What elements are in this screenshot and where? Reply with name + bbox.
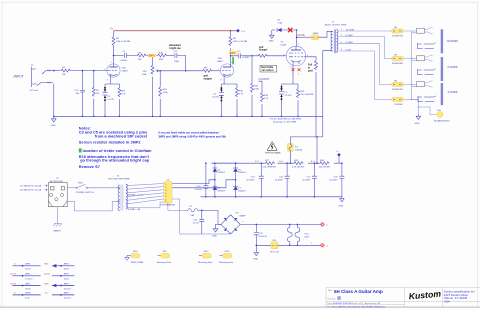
wire common tap [339, 51, 392, 99]
svg-text:C27: C27 [306, 176, 311, 178]
wire 4 ohm tap [339, 44, 392, 85]
svg-text:W10: W10 [133, 251, 138, 253]
wire V1A cathode network [105, 77, 120, 116]
svg-text:A second fixed treble cut circ: A second fixed treble cut circuit added … [158, 130, 219, 134]
capacitor C12 [254, 224, 259, 245]
svg-text:5: 5 [326, 225, 328, 227]
resistor R1 33k [61, 69, 71, 72]
svg-text:R14: R14 [254, 86, 259, 88]
svg-text:W13: W13 [225, 251, 230, 253]
svg-text:R27: R27 [265, 160, 270, 162]
svg-text:D6: D6 [238, 169, 242, 171]
svg-text:C11: C11 [174, 51, 179, 53]
svg-text:10mm: 10mm [25, 269, 31, 271]
resistor R46 [319, 162, 329, 165]
AC module P1 [48, 183, 67, 207]
svg-text:location of treble control in: location of treble control in Chieftain [83, 149, 153, 153]
ground heater [255, 245, 257, 250]
resistor R43 [293, 162, 303, 165]
svg-text:3: 3 [107, 79, 108, 81]
svg-text:V-: V- [14, 293, 16, 295]
capacitor C25 [285, 163, 290, 197]
svg-text:220 OHM NR: 220 OHM NR [300, 94, 314, 96]
svg-text:JMP2: JMP2 [25, 283, 31, 285]
diode D4 [213, 168, 218, 172]
resistor R6 56k [137, 54, 147, 57]
svg-text:4.7k 2W NR: 4.7k 2W NR [292, 166, 304, 168]
note second treble [158, 130, 226, 138]
ground symbol CH1 [52, 117, 57, 122]
svg-text:8 OHMS: 8 OHMS [448, 65, 458, 69]
svg-text:5.7k: 5.7k [264, 98, 269, 100]
page bottom edge line [0, 307, 480, 308]
jumper JMP3b wire [52, 294, 74, 296]
svg-text:V+1: V+1 [241, 31, 246, 33]
pentode V3 [286, 46, 306, 66]
svg-text:4OHM/ORG: 4OHM/ORG [392, 89, 403, 91]
svg-text:INCANDESCENT: INCANDESCENT [434, 120, 451, 123]
svg-text:1N4007: 1N4007 [238, 172, 246, 174]
svg-text:J1: J1 [31, 65, 34, 67]
svg-text:R46: R46 [320, 160, 325, 162]
svg-text:22-25V: 22-25V [212, 96, 220, 98]
svg-text:47-35: 47-35 [193, 223, 199, 225]
svg-text:J2: J2 [167, 179, 170, 181]
svg-text:stopper: stopper [204, 78, 213, 81]
svg-text:GND: GND [44, 283, 49, 285]
svg-text:+0.73V: +0.73V [107, 99, 115, 101]
1/4 jack out 2 [418, 69, 436, 80]
svg-text:4 OHMS: 4 OHMS [448, 90, 458, 94]
svg-text:P: P [426, 54, 428, 56]
node V+1 diamond [236, 29, 240, 33]
ground speaker bus [416, 114, 421, 119]
svg-text:+: + [242, 220, 244, 223]
capacitor C2 coupling [231, 53, 258, 58]
diode D6 [233, 168, 238, 172]
svg-text:V+: V+ [110, 27, 114, 30]
svg-text:22-450V: 22-450V [275, 179, 284, 181]
header J2 7 pin yellow [160, 179, 176, 206]
label fixed treble cut control (black) [260, 65, 277, 72]
svg-text:INPUT: INPUT [14, 75, 25, 79]
resistor R15 [159, 71, 161, 87]
wire jack tip to R1 [53, 70, 60, 72]
svg-text:22-450V: 22-450V [329, 179, 338, 181]
svg-text:pent: pent [308, 69, 313, 72]
svg-text:VR1: VR1 [143, 71, 148, 73]
resistor R10 [236, 87, 239, 97]
wire mid column2 [235, 171, 237, 186]
svg-text:4 OHM: 4 OHM [346, 42, 353, 44]
svg-text:220 OHM NR: 220 OHM NR [263, 166, 277, 168]
svg-text:P1: P1 [56, 178, 59, 180]
svg-text:V1C: V1C [305, 233, 310, 235]
resistor R5 plate [230, 31, 232, 36]
capacitor C5 socketed [279, 91, 284, 94]
pot wiper arrow [157, 70, 161, 72]
diode D5 [213, 186, 218, 190]
svg-text:100k LOW NR: 100k LOW NR [116, 41, 131, 43]
label JMP6 highlighted [148, 54, 157, 57]
svg-text:500k: 500k [142, 74, 148, 76]
svg-text:Mounting Hole: Mounting Hole [198, 261, 213, 264]
capacitor C11 bright cap [175, 53, 186, 58]
svg-text:17.5mm: 17.5mm [25, 279, 33, 281]
svg-text:JMP8: JMP8 [25, 293, 31, 295]
svg-text:5H Class A Guitar Amp: 5H Class A Guitar Amp [334, 289, 383, 294]
heater pin marks red [292, 68, 301, 71]
ground filter rail [340, 197, 345, 202]
svg-text:4700-25: 4700-25 [259, 236, 268, 238]
speaker bar 8 ohm [441, 57, 443, 81]
svg-text:8: 8 [290, 67, 291, 69]
resistor R20 screen [315, 60, 318, 70]
svg-text:5: 5 [292, 73, 294, 75]
svg-text:2.7k: 2.7k [122, 94, 127, 96]
pad W5 yellow [271, 242, 278, 249]
svg-text:RING TERM: RING TERM [131, 262, 143, 264]
svg-text:C10: C10 [75, 90, 80, 92]
svg-text:W6: W6 [163, 251, 167, 253]
svg-text:W12: W12 [204, 251, 209, 253]
svg-text:R2: R2 [96, 90, 100, 92]
capacitor C4 socketed [219, 93, 224, 96]
svg-text:F2: F2 [295, 146, 298, 148]
wire to pilot lamp [418, 107, 437, 115]
svg-text:240 VAC/50 Hz max.4A: 240 VAC/50 Hz max.4A [20, 189, 42, 192]
svg-text:V1A: V1A [122, 67, 127, 70]
svg-text:6: 6 [231, 62, 232, 64]
wire heater plus rail [240, 223, 320, 225]
transformer T1 [330, 29, 338, 53]
svg-text:GND: GND [51, 125, 56, 127]
svg-text:Revision:: Revision: [328, 298, 337, 300]
jumper row labels red [10, 264, 50, 295]
svg-text:File: DeluxeJMP Main Board Rev: File: DeluxeJMP Main Board Rev B 190mZR … [328, 306, 386, 309]
svg-text:Mounting Hole: Mounting Hole [157, 261, 172, 264]
wire mid column1 [214, 171, 216, 186]
cathode network V3 [282, 65, 299, 116]
wire V3 screen long run [290, 57, 323, 163]
svg-text:bright cap: bright cap [170, 47, 182, 50]
svg-text:C12: C12 [259, 233, 264, 235]
svg-text:R43: R43 [294, 160, 299, 162]
svg-text:JMP2: JMP2 [229, 52, 236, 55]
svg-text:F1: F1 [190, 206, 193, 208]
svg-text:JMP6: JMP6 [148, 55, 155, 58]
input jack J1 [32, 67, 53, 87]
svg-text:1M: 1M [96, 93, 99, 95]
wire rectifier top rail [211, 163, 238, 168]
capacitor C13 [199, 210, 204, 234]
svg-text:7 PIN HEADER: 7 PIN HEADER [160, 203, 176, 206]
svg-text:1: 1 [311, 243, 313, 245]
svg-text:Mounting Hole: Mounting Hole [219, 261, 234, 264]
capacitor C16 [203, 163, 208, 197]
svg-text:D7: D7 [238, 188, 242, 190]
pin numbers V3 [284, 44, 309, 69]
svg-text:56k: 56k [138, 59, 142, 61]
svg-text:POWER SWITCH: POWER SWITCH [76, 192, 94, 194]
svg-text:stopper: stopper [259, 49, 268, 52]
wire jack3 to connector [404, 85, 417, 87]
label JMP2 highlighted [229, 51, 238, 54]
svg-text:D8: D8 [236, 213, 240, 215]
svg-text:12.5mm: 12.5mm [64, 288, 72, 290]
plate wire to jumper [297, 36, 312, 38]
svg-text:SW1: SW1 [78, 182, 84, 184]
svg-text:-0.408V: -0.408V [242, 57, 250, 59]
node V+ feed [338, 156, 340, 163]
svg-text:R11: R11 [122, 91, 127, 93]
wires T2 secondary to header [126, 184, 187, 211]
pin numbers V1B [218, 62, 233, 82]
svg-text:C6 2200uF: C6 2200uF [259, 78, 270, 80]
wire jack sleeve down to ground bus [53, 84, 55, 117]
jumper JMP1 wire [13, 275, 41, 277]
svg-text:V+: V+ [336, 151, 339, 153]
resistor R27 [265, 162, 275, 165]
svg-text:Kustom: Kustom [408, 289, 441, 302]
svg-text:16OHM/YEL: 16OHM/YEL [392, 36, 404, 38]
C4 socket arrows (black) [220, 87, 223, 101]
svg-text:PLATE: PLATE [298, 34, 306, 37]
svg-text:180p: 180p [174, 61, 180, 63]
fuse F2 [287, 143, 302, 163]
extra resistor R18 [261, 81, 263, 92]
junction dots input [53, 70, 95, 117]
svg-text:W2: W2 [394, 55, 398, 57]
svg-text:1N4007: 1N4007 [238, 190, 246, 192]
warning triangle HIGH VOLTAGE [267, 142, 277, 151]
wire V1A plate up to R4 [113, 46, 115, 64]
svg-text:6AMP: 6AMP [240, 215, 246, 218]
svg-text:1: 1 [111, 62, 112, 64]
svg-text:SwG2: SwG2 [10, 283, 17, 285]
C5 socket arrows (black) [280, 86, 283, 100]
jumper JMP3 yellow [311, 35, 318, 40]
svg-text:8: 8 [220, 79, 221, 81]
svg-text:16 OHM: 16 OHM [346, 29, 354, 31]
svg-text:grid: grid [259, 47, 264, 49]
title block frame [326, 288, 480, 307]
earth ground [53, 207, 62, 227]
1/4 jack out 1 [418, 43, 436, 54]
wire diode to plate node [284, 30, 296, 46]
svg-text:JMP2 and JMP6 using 0.0047uf 4: JMP2 and JMP6 using 0.0047uf 400V greeni… [158, 135, 226, 139]
svg-text:12AX7: 12AX7 [217, 60, 224, 63]
svg-text:12AX7: 12AX7 [122, 70, 129, 73]
svg-text:SwG3: SwG3 [44, 274, 51, 276]
svg-text:GND: GND [253, 259, 258, 261]
svg-text:1N4007: 1N4007 [217, 172, 225, 174]
pad W13 [219, 251, 234, 264]
svg-text:C30: C30 [333, 176, 338, 178]
svg-text:5: 5 [284, 54, 285, 56]
jumper JMP5 wire [13, 265, 41, 267]
wire pot top [152, 56, 154, 65]
svg-text:V2-: V2- [45, 293, 49, 295]
capacitor C3 socketed [103, 92, 108, 98]
ground at diode [271, 30, 273, 33]
svg-text:C2: C2 [238, 51, 242, 53]
svg-text:JMP3: JMP3 [313, 33, 319, 35]
svg-text:C1: C1 [123, 51, 127, 53]
svg-text:S7: S7 [278, 20, 281, 22]
wire heater minus rail [256, 244, 320, 246]
speaker bar 4 ohm [441, 83, 443, 105]
svg-text:USA: USA [444, 300, 450, 304]
diode D7 [233, 186, 238, 190]
resistor R19 cathode [297, 88, 300, 98]
svg-text:4: 4 [326, 246, 328, 248]
svg-text:120 VAC/60 Hz max.8A: 120 VAC/60 Hz max.8A [20, 184, 42, 187]
svg-text:1/4" Jack: 1/4" Jack [420, 104, 428, 106]
svg-text:Approved by: JK: Approved by: JK [365, 302, 381, 305]
svg-text:10mm: 10mm [64, 269, 70, 271]
jumper JMP2 wire [13, 285, 41, 287]
svg-text:from a machined SIP socket: from a machined SIP socket [95, 135, 148, 139]
wire 16 ohm tap [339, 30, 392, 32]
svg-text:22-450V: 22-450V [246, 179, 255, 181]
svg-text:12.5mm: 12.5mm [64, 298, 72, 300]
capacitor C27 [312, 163, 317, 197]
svg-text:33k: 33k [62, 74, 66, 76]
wire AC feed 2 [172, 180, 236, 188]
svg-text:P: P [426, 26, 428, 28]
wire bus to ground [412, 99, 419, 114]
svg-text:2.7k: 2.7k [239, 94, 244, 96]
wire bridge left to ground [216, 224, 222, 227]
svg-text:JMP4: JMP4 [64, 264, 70, 266]
svg-text:JMP5: JMP5 [25, 264, 31, 266]
svg-text:100k: 100k [159, 59, 165, 61]
terminal heater minus red [321, 244, 325, 248]
wire jack1 to connector [404, 31, 417, 33]
jumper JMP8 wire [13, 294, 41, 296]
wire to junction JMP6 [147, 55, 158, 57]
svg-text:470k: 470k [254, 89, 260, 91]
resistor R2 1M [93, 71, 95, 117]
terminal heater plus red [321, 223, 325, 227]
svg-text:10k 2W NR: 10k 2W NR [319, 166, 331, 168]
svg-text:P: P [426, 80, 428, 82]
svg-text:grid: grid [204, 76, 209, 78]
svg-text:C5: C5 [285, 92, 289, 94]
svg-text:fixed treble: fixed treble [261, 66, 274, 69]
svg-text:AUDIO OUTPUT XFMR: AUDIO OUTPUT XFMR [325, 24, 347, 27]
switch SW1 [67, 184, 117, 188]
svg-text:Remove S7: Remove S7 [79, 165, 100, 169]
svg-text:1/4" Jack: 1/4" Jack [419, 77, 427, 79]
pad W6 [157, 251, 172, 264]
svg-text:5: 5 [298, 73, 300, 75]
jumper JMP2 green mark [232, 57, 234, 65]
ground bus wire [54, 115, 323, 117]
svg-text:JMP9: JMP9 [64, 283, 70, 285]
svg-text:C4: C4 [213, 93, 217, 95]
svg-text:1.5A: 1.5A [278, 21, 283, 24]
svg-text:COM: COM [346, 49, 351, 51]
svg-text:V-: V- [14, 264, 16, 266]
resistor R16 100k [157, 54, 167, 57]
svg-text:T4A: T4A [190, 214, 195, 217]
diode D3 [272, 28, 285, 32]
speaker connector 1 [417, 26, 433, 33]
svg-text:SwG1: SwG1 [10, 274, 17, 276]
svg-text:C13: C13 [193, 220, 198, 222]
svg-text:cut control: cut control [262, 69, 274, 72]
svg-text:Full: Full [308, 65, 312, 67]
svg-text:22-450V: 22-450V [302, 179, 311, 181]
svg-text:GND: GND [212, 235, 217, 237]
svg-text:attenuated: attenuated [169, 44, 181, 47]
svg-text:2: 2 [104, 69, 105, 71]
svg-text:100k: 100k [163, 92, 169, 94]
junction dots speaker bus [411, 58, 419, 108]
jack W4 common yellow [392, 97, 404, 106]
svg-text:7: 7 [218, 69, 219, 71]
svg-text:1/4" Jack: 1/4" Jack [419, 51, 427, 53]
svg-text:in: in [308, 68, 311, 70]
jack W1 16 ohm yellow [392, 27, 405, 38]
svg-text:33-450: 33-450 [195, 189, 203, 191]
svg-text:C25: C25 [279, 176, 284, 178]
svg-text:B+2: B+2 [279, 161, 284, 163]
svg-text:C3: C3 [107, 96, 111, 98]
wire jack4 to 1/4 jack [404, 98, 418, 100]
svg-text:GND: GND [339, 206, 344, 208]
resistor R9 grid stopper [202, 69, 212, 72]
svg-text:V1B: V1B [218, 58, 223, 60]
svg-text:EARTH: EARTH [54, 229, 62, 232]
resistor R4 plate [112, 36, 115, 46]
svg-text:Title:: Title: [328, 289, 333, 292]
svg-text:GND: GND [269, 41, 274, 43]
svg-text:R15: R15 [163, 89, 168, 91]
svg-text:8 OHM: 8 OHM [346, 35, 353, 37]
removed switch red X [288, 28, 292, 32]
svg-text:1N4007: 1N4007 [217, 190, 225, 192]
wire wiper to grid stopper [160, 70, 202, 72]
wire jack2 to connector [404, 59, 417, 61]
svg-text:KUSTOM 7WB XFMR: KUSTOM 7WB XFMR [108, 179, 130, 181]
svg-text:Dropping use 470 OHM: Dropping use 470 OHM [273, 121, 296, 124]
svg-text:GND: GND [415, 123, 420, 125]
jack W3 4 ohm yellow [392, 80, 404, 91]
svg-text:R10: R10 [239, 91, 244, 93]
svg-text:R5: R5 [233, 38, 237, 40]
speaker bar 16 ohm [441, 29, 443, 53]
svg-text:C19: C19 [250, 176, 255, 178]
svg-text:7mm: 7mm [25, 298, 30, 300]
bridge rectifier BR1 [221, 215, 240, 234]
svg-text:Date: 8/10/2021 9:06 PM Sheet: Date: 8/10/2021 9:06 PM Sheet 1 of 1 [328, 302, 364, 305]
svg-text:T2: T2 [117, 176, 120, 178]
heater filament V1 [287, 224, 292, 245]
svg-text:Screen resistor installed in J: Screen resistor installed in JMP2 [79, 141, 141, 145]
svg-text:JMP7: JMP7 [64, 274, 70, 276]
svg-text:T1: T1 [332, 22, 335, 24]
svg-text:500mA: 500mA [295, 148, 302, 151]
svg-text:10mm: 10mm [25, 288, 31, 290]
svg-text:W1: W1 [394, 27, 398, 29]
wire T1 primary bottom long run [323, 51, 330, 137]
heater filament V3 [295, 224, 300, 245]
svg-text:1/4" Jack: 1/4" Jack [30, 90, 40, 92]
svg-text:-0.408V: -0.408V [120, 60, 128, 62]
